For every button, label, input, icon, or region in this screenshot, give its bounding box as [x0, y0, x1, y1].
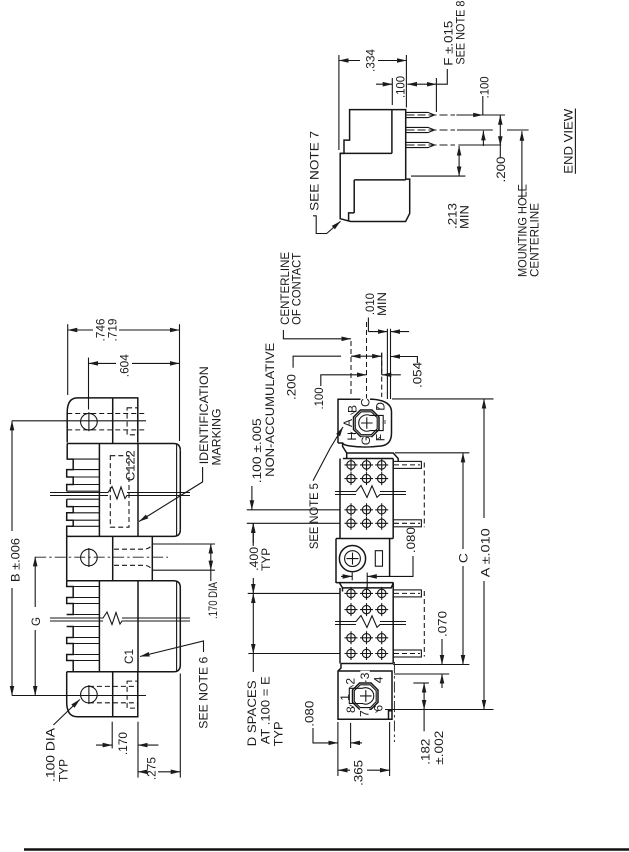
svg-text:4: 4 — [372, 676, 386, 683]
svg-text:CENTERLINE: CENTERLINE — [527, 203, 541, 277]
centerline of contact bracket — [283, 330, 351, 339]
dim .054 arrows — [391, 357, 418, 364]
top ear hidden slot upper — [67, 413, 146, 415]
svg-text:OF CONTACT: OF CONTACT — [290, 252, 304, 325]
dim C line — [462, 453, 464, 549]
svg-text:C: C — [457, 553, 471, 563]
dim A extension top — [392, 398, 494, 400]
svg-text:TYP: TYP — [259, 548, 273, 571]
svg-text:.100 ±.005: .100 ±.005 — [250, 418, 264, 483]
top ear centerline horizontal — [12, 420, 146, 422]
svg-text:A: A — [341, 419, 355, 427]
svg-text:2: 2 — [343, 678, 357, 685]
pin 2 extension line — [457, 129, 493, 131]
svg-text:.275: .275 — [144, 757, 158, 780]
dim .100 pin pitch arrow upper — [482, 96, 484, 115]
dim .080 top leader — [367, 556, 413, 576]
col 2 dashed extension up — [366, 322, 368, 409]
dim .182 line — [423, 683, 425, 710]
dim .100 extension (inner wall) — [391, 78, 393, 105]
comb lower section tooth lines b — [67, 627, 100, 661]
svg-text:.719: .719 — [105, 318, 119, 341]
identification marking leader — [139, 467, 203, 522]
dim .170 extension left — [111, 722, 113, 749]
dim .080 bottom bracket — [313, 728, 338, 743]
dim .200 line — [499, 115, 501, 146]
svg-text:±.002: ±.002 — [432, 730, 446, 764]
dim .365 extension right — [389, 722, 391, 776]
svg-text:.170 DIA: .170 DIA — [206, 582, 220, 619]
dim .200 bracket — [293, 356, 341, 368]
dim D spaces line — [252, 593, 254, 653]
svg-text:.100: .100 — [478, 76, 492, 98]
key hole upper line — [152, 543, 215, 545]
col 3 dashed extension up — [381, 353, 383, 397]
module 1 contact row 4 — [345, 517, 389, 530]
coax top section outline — [338, 399, 392, 447]
pin 2 centerline — [407, 129, 456, 131]
svg-text:C1: C1 — [122, 649, 136, 664]
comb upper left edge — [67, 444, 74, 492]
key hole inner circle — [345, 551, 361, 567]
footer rule — [24, 848, 629, 851]
svg-text:TYP: TYP — [272, 721, 286, 746]
circle section left edge — [335, 539, 337, 584]
svg-text:.080: .080 — [404, 527, 418, 553]
col1 extension below — [350, 723, 352, 748]
key hole lower line — [152, 569, 215, 571]
pin 1 centerline — [407, 114, 456, 116]
svg-text:END VIEW: END VIEW — [561, 108, 575, 174]
F extension line at pin tips — [435, 78, 437, 112]
svg-text:SEE NOTE 5: SEE NOTE 5 — [307, 483, 321, 549]
dim .365 line — [338, 769, 350, 771]
module 1 pin top — [393, 461, 421, 468]
lower shell bottom edge — [67, 665, 181, 672]
pin 2 — [406, 127, 435, 132]
dim .746 .719 line — [68, 329, 93, 331]
bottom ear hole cross vertical — [88, 685, 90, 704]
svg-text:7: 7 — [358, 710, 372, 717]
svg-text:D SPACES: D SPACES — [245, 680, 259, 746]
svg-text:.100: .100 — [394, 76, 408, 98]
bottom section top extension — [394, 673, 449, 675]
row extension module 2 top — [248, 592, 340, 594]
dim A line — [483, 399, 485, 518]
comb lower-upper tooth lines — [67, 499, 100, 526]
dim .604 extension left — [88, 358, 90, 410]
module 1 contact row 2 — [345, 472, 389, 485]
dim .334 extension left — [338, 55, 340, 150]
module 2 pins hidden connector — [423, 591, 425, 657]
number halo 3 — [360, 671, 370, 681]
coax bottom section outline — [338, 664, 392, 720]
dim .213 MIN line — [458, 146, 460, 176]
module 2 pin top — [393, 590, 421, 597]
title underline — [574, 109, 576, 174]
body line L3 upper section — [137, 444, 139, 537]
module 1 pin bottom — [393, 520, 421, 527]
module 2 contact row 2 — [345, 603, 389, 616]
dim .746 .719 extension left — [67, 324, 69, 395]
pin 3 extension line — [458, 144, 501, 146]
row extension lines left (.100 pitch) — [247, 509, 340, 511]
svg-text:.182: .182 — [419, 738, 433, 764]
end view body outline — [340, 110, 410, 222]
module 1 contact row 1 — [345, 458, 389, 471]
dim C extension top — [395, 452, 470, 454]
top coax keyhole — [359, 415, 383, 431]
.100 dia leader — [53, 700, 79, 726]
module 2 contact row 3 — [345, 631, 389, 644]
end view inner vertical wall — [391, 110, 393, 154]
bottom coax hidden centerline verticals — [365, 673, 367, 683]
end view internal vertical — [353, 180, 355, 213]
svg-text:C122: C122 — [123, 450, 137, 481]
module 2 contact row 4 — [345, 647, 389, 660]
svg-text:TYP: TYP — [57, 759, 71, 782]
lower shell top edge — [67, 581, 181, 588]
svg-text:H: H — [345, 432, 359, 441]
letter halo G — [361, 437, 371, 447]
pin 1 extension line — [456, 114, 505, 116]
bottom coax number ticks — [350, 675, 380, 718]
dim .100 col bracket — [321, 375, 360, 386]
svg-text:MARKING: MARKING — [210, 409, 224, 466]
module 1 contact row 3 — [345, 503, 389, 516]
svg-text:SEE NOTE 8: SEE NOTE 8 — [454, 0, 468, 64]
top coax center cross — [361, 417, 373, 429]
svg-text:.604: .604 — [117, 354, 131, 377]
contact view upper break — [335, 486, 406, 498]
module 1 right edge — [392, 459, 394, 539]
svg-text:A ±.010: A ±.010 — [478, 528, 492, 577]
dim .100 col arrows — [360, 374, 367, 376]
end view seating plane line — [354, 179, 406, 181]
svg-text:.365: .365 — [352, 760, 366, 786]
dim .400 TYP line — [252, 578, 254, 593]
svg-text:8: 8 — [344, 706, 358, 713]
top ear hidden pocket — [127, 408, 137, 435]
dim .604 line — [89, 362, 117, 364]
comb lower section left edge — [67, 581, 74, 615]
dim .100 pitch arrows — [251, 486, 253, 510]
svg-text:3: 3 — [358, 672, 372, 679]
top coax outer octagon — [354, 410, 380, 437]
see note 5 leader — [313, 427, 343, 481]
dim .334 extension right — [405, 55, 407, 108]
lower shell inner right edge — [176, 582, 178, 671]
svg-text:.070: .070 — [435, 611, 449, 637]
svg-text:G: G — [29, 617, 43, 626]
svg-text:.200: .200 — [494, 156, 508, 182]
dim .746 .719 extension right — [179, 324, 181, 441]
bottom coax inner octagon — [354, 685, 376, 708]
body line L1 upper section — [98, 444, 100, 537]
key hole outer circle — [339, 546, 365, 572]
end view shoulder line — [340, 152, 392, 154]
middle flange strip verticals — [112, 536, 114, 580]
dim .010 min leader+arrows — [368, 318, 387, 332]
circle centerline vertical ticks — [351, 573, 353, 581]
bottom right dash-dot line — [393, 662, 395, 742]
svg-text:.334: .334 — [364, 49, 378, 72]
comb lower section tooth lines a — [67, 587, 100, 615]
body line L3 lower section — [137, 581, 139, 672]
dim .334 line — [339, 60, 360, 62]
bottom ear inner vertical — [112, 672, 114, 717]
module 1 left edge — [339, 459, 341, 539]
key hole cross — [347, 553, 359, 565]
module 2 bevel top — [336, 583, 394, 592]
lower shell outer right edge — [179, 588, 181, 665]
svg-text:AT .100 = E: AT .100 = E — [258, 676, 272, 744]
F leader to text — [436, 69, 447, 84]
top ear hidden slot lower — [67, 429, 146, 431]
comb lower-upper left edge — [67, 499, 74, 536]
pin 3 — [406, 142, 435, 147]
svg-text:SEE NOTE 7: SEE NOTE 7 — [307, 131, 321, 211]
svg-text:F: F — [374, 434, 388, 441]
pin 1 — [406, 112, 435, 117]
col 1 dashed extension up — [350, 341, 352, 397]
lower break line pair with zigzag — [50, 612, 190, 625]
dim C/0.070 extension bottom — [393, 664, 469, 666]
end view bottom notch — [349, 213, 355, 222]
comb lower section left edge b — [67, 627, 74, 672]
module 2 bottom edge — [341, 663, 393, 665]
middle ear hole cross vertical — [88, 548, 90, 567]
svg-text:.100: .100 — [312, 387, 326, 409]
svg-text:C: C — [358, 398, 372, 407]
dim .182 extension (octagon top) — [413, 682, 429, 684]
contact view lower break — [335, 616, 406, 628]
circle section right edge — [389, 539, 391, 578]
module 2 contact row 1 — [345, 587, 389, 600]
upper shell bottom edge — [67, 530, 181, 537]
key funnel upper dashed — [114, 544, 152, 549]
upper shell outer right edge — [179, 450, 181, 530]
top mounting ear outline — [67, 398, 138, 443]
svg-text:NON-ACCUMULATIVE: NON-ACCUMULATIVE — [263, 343, 277, 477]
module 2 left edge — [339, 588, 341, 664]
module 1 pins hidden connector — [423, 463, 425, 528]
upper shell inner right edge — [176, 445, 178, 536]
module 2 right edge — [392, 583, 394, 664]
bottom coax outer octagon — [353, 683, 379, 709]
section line below top ear — [67, 444, 180, 451]
mounting hole centerline mark — [507, 129, 529, 131]
middle ear hole circle — [81, 549, 98, 566]
letter halo C — [361, 399, 371, 409]
dim .200 line — [351, 355, 382, 357]
bottom coax center cross — [360, 690, 372, 702]
comb upper tooth lines — [67, 459, 100, 491]
svg-text:B ±.006: B ±.006 — [9, 538, 23, 582]
dim .170 arrows — [96, 744, 112, 746]
svg-text:1: 1 — [338, 694, 352, 701]
dim .100 pin pitch arrow lower — [482, 131, 484, 146]
top ear inner vertical — [112, 398, 114, 444]
svg-text:6: 6 — [372, 705, 386, 712]
dim B extension top — [11, 420, 13, 422]
svg-text:.054: .054 — [411, 362, 425, 388]
upper break line pair with zigzag — [50, 487, 190, 500]
dim .170 extension right — [137, 722, 139, 778]
seating plane extension — [411, 175, 465, 177]
bottom ear hidden slot lower — [89, 702, 138, 704]
dim .365 extension left — [337, 722, 339, 776]
svg-text:G: G — [359, 436, 373, 445]
dim G line — [34, 557, 36, 607]
svg-text:MIN: MIN — [375, 292, 389, 316]
number halo 7 — [360, 709, 370, 719]
bottom ear hole circle — [81, 686, 98, 703]
svg-text:D: D — [374, 402, 388, 411]
module 1 bevel top — [343, 443, 399, 461]
top ear hole cross vertical — [88, 412, 90, 431]
row extension module 2 bottom — [248, 653, 340, 655]
bottom mounting ear outline — [67, 672, 138, 717]
module 1 bottom edge — [336, 538, 393, 540]
top coax inner octagon — [355, 412, 377, 435]
svg-text:.080: .080 — [302, 700, 316, 726]
middle flange left edge — [66, 536, 68, 580]
see note 6 leader — [140, 641, 204, 657]
dim .100/F shared dimension line — [376, 83, 392, 85]
bottom ear hidden pocket — [127, 681, 137, 708]
svg-text:.170: .170 — [116, 732, 130, 755]
bottom coax keyhole — [349, 688, 373, 704]
dim .275 line — [138, 771, 145, 773]
module gap line left — [386, 329, 388, 399]
svg-text:MIN: MIN — [458, 205, 472, 229]
key slot small rect — [375, 551, 382, 567]
col 3 solid tick — [381, 353, 383, 375]
middle centerline horizontal — [35, 556, 168, 558]
dim .170 DIA lines — [210, 544, 212, 570]
bottom ear centerline horizontal — [12, 695, 146, 697]
svg-text:.100 DIA: .100 DIA — [44, 728, 58, 782]
module gap line right — [390, 329, 392, 399]
svg-text:.200: .200 — [285, 374, 299, 400]
dim A extension bottom — [385, 709, 494, 711]
dim .275 extension right — [179, 674, 181, 778]
module 2 pin bottom — [393, 650, 421, 657]
top ear hole circle — [81, 413, 98, 430]
mounting hole centerline leader — [521, 131, 523, 199]
identification marking dashed box — [110, 456, 129, 528]
svg-text:SEE NOTE 6: SEE NOTE 6 — [197, 656, 211, 728]
pin 3 centerline — [407, 144, 456, 146]
key funnel lower dashed — [114, 565, 152, 570]
top coax letter ticks — [351, 402, 386, 445]
dim B line — [11, 421, 13, 531]
see note 7 leader — [313, 216, 341, 234]
bottom ear hidden slot upper — [89, 685, 138, 687]
body line L1 lower section — [98, 581, 100, 672]
